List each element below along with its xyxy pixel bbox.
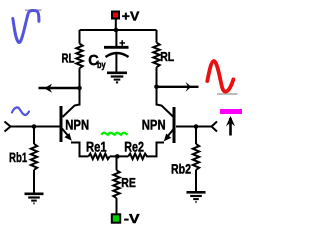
svg-text:Re1: Re1 — [86, 139, 107, 155]
svg-text:NPN: NPN — [142, 117, 166, 133]
svg-text:Re2: Re2 — [124, 139, 144, 155]
svg-text:by: by — [97, 60, 106, 71]
svg-text:-V: -V — [124, 211, 140, 226]
svg-text:RL: RL — [62, 50, 75, 65]
svg-text:Rb1: Rb1 — [9, 150, 28, 165]
svg-text:RE: RE — [121, 175, 136, 190]
svg-text:Rb2: Rb2 — [171, 161, 191, 176]
svg-text:+V: +V — [122, 8, 140, 23]
svg-text:RL: RL — [160, 49, 174, 64]
svg-text:NPN: NPN — [65, 117, 89, 133]
